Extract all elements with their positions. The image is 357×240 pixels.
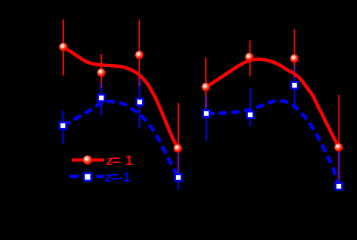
svg-text:=: = [110, 168, 118, 184]
svg-text:-1: -1 [119, 169, 131, 184]
svg-text:1: 1 [125, 152, 133, 168]
svg-text:=: = [112, 152, 120, 168]
